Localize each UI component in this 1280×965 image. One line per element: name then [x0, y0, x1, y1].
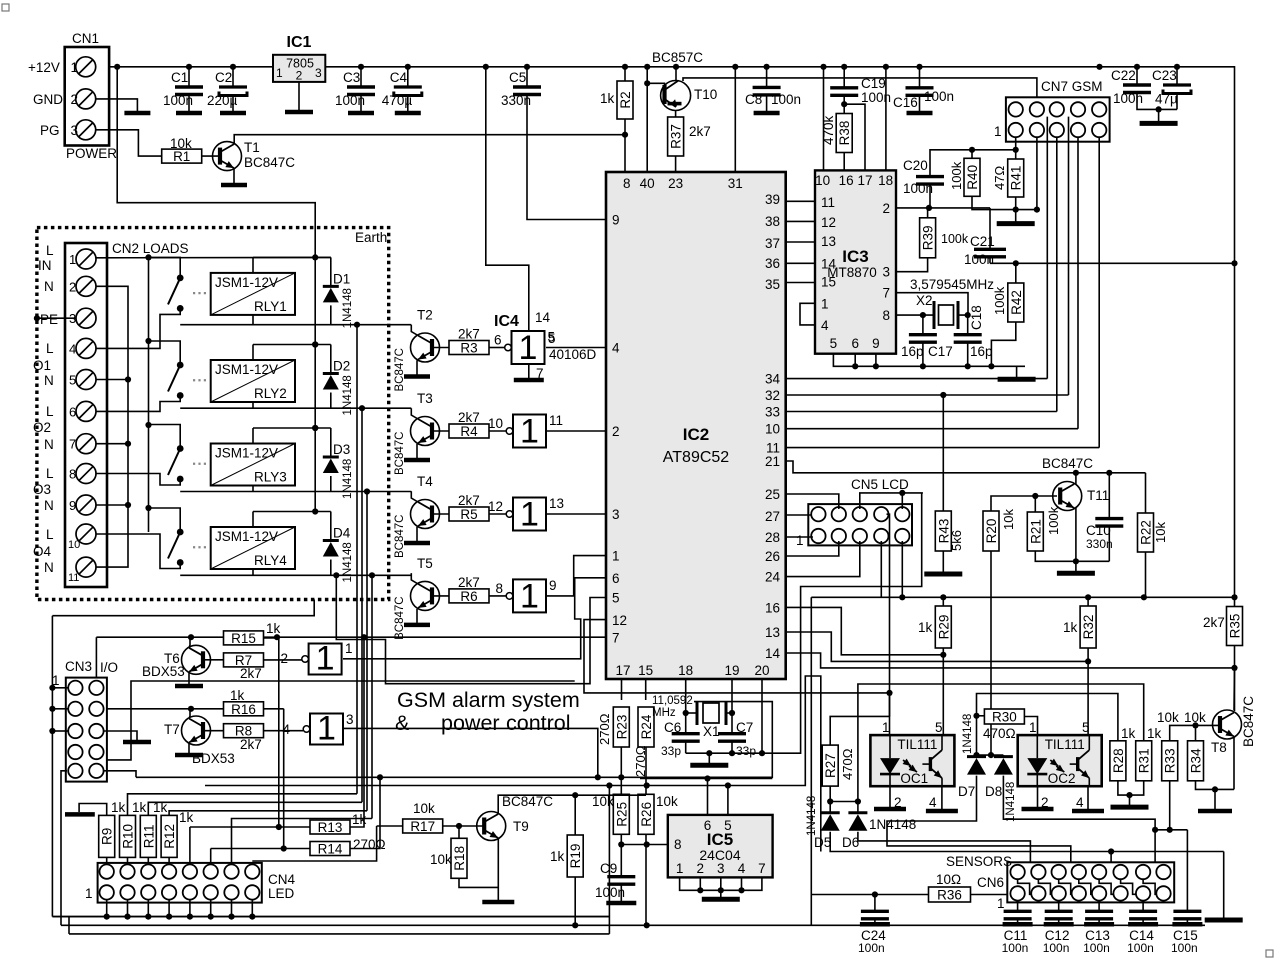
- ground T3 emitter: [404, 458, 430, 460]
- wire L-out pin to switch3 lower: [96, 474, 180, 486]
- wire T4 emitter: [416, 527, 418, 541]
- svg-text:O1: O1: [33, 358, 51, 373]
- wire R12 top riser: [169, 811, 367, 816]
- wire R33 line to CN6 and C15: [1155, 829, 1187, 831]
- svg-text:2k7: 2k7: [240, 666, 262, 681]
- wire R9 top to ground: [79, 804, 107, 816]
- svg-text:IN: IN: [38, 258, 52, 273]
- svg-text:BC847C: BC847C: [394, 515, 406, 558]
- resistor R30: [984, 709, 1024, 725]
- capacitor C23 (polarized): [1163, 85, 1191, 94]
- svg-text:1: 1: [796, 533, 804, 548]
- transistor T3: [411, 417, 440, 446]
- wire C17 lead: [922, 315, 924, 335]
- wire IC4 pin7 ground lead: [528, 364, 530, 378]
- svg-text:470Ω: 470Ω: [983, 726, 1016, 741]
- svg-text:R2: R2: [618, 91, 633, 108]
- svg-text:BC847C: BC847C: [1042, 456, 1093, 471]
- svg-text:C21: C21: [970, 234, 995, 249]
- svg-text:R4: R4: [460, 424, 478, 439]
- svg-text:1: 1: [994, 124, 1002, 139]
- svg-text:R35: R35: [1228, 614, 1243, 639]
- svg-text:8: 8: [623, 176, 631, 191]
- inverter gate IC4 gate 4: [506, 577, 546, 615]
- svg-text:33: 33: [765, 405, 780, 420]
- wire CN4 bottom pin drop: [106, 900, 108, 917]
- svg-text:4: 4: [929, 795, 937, 810]
- svg-text:39: 39: [765, 192, 780, 207]
- wire bottom rail 1: [52, 916, 609, 918]
- svg-text:2k7: 2k7: [689, 124, 711, 139]
- svg-text:5: 5: [612, 591, 620, 606]
- capacitor C18: [954, 335, 982, 343]
- wire R38 bottom to IC3 pin16: [843, 153, 845, 171]
- svg-text:6: 6: [851, 336, 859, 351]
- wire T9 collector line: [498, 795, 646, 814]
- relay RLY2 (JSM1-12V): [211, 360, 295, 402]
- wire RLY1 coil bottom lead: [252, 315, 254, 325]
- svg-text:31: 31: [728, 176, 743, 191]
- wire rail y597 left leg: [810, 597, 812, 925]
- capacitor C24: [861, 911, 889, 919]
- svg-text:6: 6: [704, 818, 712, 833]
- wire X1 ground rail: [686, 493, 922, 753]
- wire N pin9 stub: [96, 504, 128, 506]
- ground T6 emitter: [175, 684, 203, 686]
- wire IC2-IC3 link y242: [786, 241, 815, 243]
- wire R35 bottom to T8: [1234, 646, 1236, 712]
- wire T11 collector: [1075, 473, 1077, 484]
- wire R17 left drop: [252, 826, 376, 861]
- svg-text:OC1: OC1: [900, 771, 928, 786]
- svg-text:2k7: 2k7: [240, 737, 262, 752]
- svg-text:9: 9: [612, 213, 620, 228]
- svg-text:T3: T3: [417, 391, 433, 406]
- wire R40/R41 bottom rail: [972, 196, 1037, 209]
- wire IC3 pin9 drop: [875, 354, 877, 367]
- svg-text:37: 37: [765, 236, 780, 251]
- wire C24 lead: [874, 895, 876, 912]
- switch contacts RLY3: [177, 445, 184, 452]
- svg-text:2k7: 2k7: [458, 493, 480, 508]
- wire CN3 r1 riser: [95, 637, 97, 688]
- inverter gate IC4 gate 5: [302, 640, 342, 678]
- wire T7 emitter: [188, 743, 190, 753]
- svg-text:13: 13: [549, 496, 564, 511]
- capacitor C22: [1123, 85, 1151, 93]
- svg-text:O4: O4: [33, 544, 52, 559]
- ground OC2 pin2: [1022, 806, 1054, 809]
- wire CN4 pin5 riser: [189, 827, 191, 864]
- svg-text:power: power: [441, 711, 500, 735]
- svg-text:1: 1: [71, 60, 79, 75]
- relay RLY1 (JSM1-12V): [211, 273, 295, 315]
- svg-text:2k7: 2k7: [458, 575, 480, 590]
- svg-text:1k: 1k: [1147, 726, 1162, 741]
- wire CN1 pin1 to +12V rail: [95, 66, 96, 68]
- svg-text:100k: 100k: [949, 161, 964, 190]
- svg-text:11: 11: [68, 572, 79, 584]
- svg-text:R33: R33: [1163, 748, 1178, 773]
- capacitor C19: [830, 88, 858, 96]
- wire switch2 upper feed: [149, 341, 181, 365]
- svg-text:BC847C: BC847C: [394, 348, 406, 391]
- wire C9 bottom: [620, 884, 622, 899]
- wire R25 top: [620, 777, 622, 794]
- svg-text:100n: 100n: [1002, 941, 1029, 955]
- wire IC3 pin2 line: [896, 207, 990, 209]
- svg-text:1: 1: [520, 577, 539, 615]
- svg-text:IC2: IC2: [683, 425, 709, 444]
- svg-text:14: 14: [821, 256, 837, 271]
- wire T10 base from pin40 line: [647, 83, 664, 88]
- svg-text:1: 1: [69, 252, 76, 267]
- svg-text:5: 5: [935, 720, 943, 735]
- wire X1 right lead: [726, 712, 732, 714]
- wire rail3 left riser: [68, 917, 70, 934]
- svg-text:T8: T8: [1211, 740, 1227, 755]
- wire C8 bottom: [766, 95, 768, 110]
- svg-text:X1: X1: [703, 724, 720, 739]
- svg-text:470k: 470k: [821, 115, 836, 145]
- svg-text:N: N: [44, 498, 54, 513]
- wire IC2 pin26 to CN5 bot2: [786, 541, 839, 556]
- svg-text:2: 2: [71, 92, 79, 107]
- switch contacts RLY2: [177, 362, 184, 369]
- wire C20 top to CN7 pin1 net: [930, 150, 972, 177]
- svg-text:T9: T9: [513, 819, 529, 834]
- svg-text:BC847C: BC847C: [502, 794, 553, 809]
- wire CN3 r3 right to ground: [104, 731, 137, 739]
- wire IC2 pin34 line: [786, 378, 1048, 380]
- wire R21 bottom rail: [1035, 551, 1109, 561]
- wire R39 bottom to IC3 pin3: [896, 258, 928, 272]
- wire R16 right drop: [283, 709, 285, 849]
- transistor T7: [182, 716, 211, 745]
- svg-text:1k: 1k: [600, 91, 615, 106]
- wire IC3 pin6 drop: [854, 354, 856, 367]
- svg-text:10k: 10k: [656, 794, 678, 809]
- svg-text:1: 1: [821, 296, 829, 311]
- svg-text:R18: R18: [452, 846, 467, 871]
- svg-text:1: 1: [882, 720, 890, 735]
- wire IC2 pin25 to CN5 top2: [786, 494, 839, 509]
- diode D7: [967, 757, 986, 775]
- wire C3 bottom lead: [360, 95, 362, 112]
- svg-text:POWER: POWER: [66, 146, 117, 161]
- wire RLY2 bottom rail: [180, 407, 411, 409]
- wire RLY3 bottom rail: [180, 491, 411, 493]
- transistor T4: [411, 500, 440, 529]
- svg-text:13: 13: [765, 625, 780, 640]
- wire C20 bottom to pin2 node: [929, 184, 931, 208]
- svg-text:270Ω: 270Ω: [597, 713, 612, 745]
- resistor R20: [983, 511, 999, 551]
- wire T2 collector: [411, 325, 418, 336]
- svg-text:3: 3: [315, 66, 322, 80]
- node R29/OC1 pin5: [940, 652, 946, 658]
- crystal X2: [934, 301, 958, 329]
- svg-text:1: 1: [997, 896, 1005, 911]
- resistor R18: [451, 838, 467, 878]
- svg-text:10: 10: [815, 173, 830, 188]
- wire C2 bottom lead: [232, 96, 234, 112]
- svg-text:JSM1-12V: JSM1-12V: [215, 362, 278, 377]
- inverter gate IC4 gate 3: [506, 496, 546, 534]
- resistor R41: [1008, 159, 1024, 197]
- wire relay drop 3: [366, 492, 368, 811]
- resistor R22: [1138, 513, 1154, 552]
- wire CN6 link 3: [1059, 879, 1072, 894]
- wire switch1 upper feed: [149, 257, 181, 278]
- wire CN4 bottom pin drop: [127, 900, 129, 917]
- svg-text:10: 10: [488, 416, 503, 431]
- IC IC5 24C04: [668, 815, 773, 878]
- wire D1 top lead: [330, 257, 332, 286]
- svg-text:D1: D1: [333, 271, 350, 286]
- svg-text:C20: C20: [903, 158, 928, 173]
- wire RLY1 top rail: [253, 256, 331, 258]
- ground C24: [860, 919, 890, 925]
- wire R21 top: [1034, 496, 1036, 512]
- wire C19 top: [843, 67, 845, 88]
- wire R13 right riser: [350, 637, 364, 827]
- wire R20 top to T11 base: [991, 496, 1057, 511]
- svg-text:R21: R21: [1028, 519, 1043, 544]
- wire T4 base to R5: [432, 513, 449, 515]
- svg-text:L: L: [46, 404, 54, 419]
- wire IC5 bottom rail: [680, 877, 762, 890]
- svg-text:16p: 16p: [901, 344, 924, 359]
- wire R10 bottom to CN4: [127, 857, 129, 864]
- transistor T1: [213, 142, 242, 171]
- svg-text:21: 21: [765, 454, 780, 469]
- wire R17 to T9 base: [443, 825, 483, 827]
- svg-text:N: N: [44, 279, 54, 294]
- svg-text:1k: 1k: [132, 800, 147, 815]
- wire T8 emitter gnd: [1214, 789, 1216, 808]
- svg-text:L: L: [46, 466, 54, 481]
- wire C6 bottom: [685, 741, 687, 753]
- resistor R31: [1136, 741, 1152, 781]
- capacitor C8: [753, 87, 781, 95]
- svg-text:C10: C10: [1086, 523, 1111, 538]
- wire R18 top: [458, 826, 460, 838]
- CN2 pin numbers and labels: [33, 241, 189, 584]
- wire C2 top lead: [232, 67, 234, 87]
- wire R8 to gate6: [264, 730, 304, 732]
- svg-text:R3: R3: [460, 341, 477, 356]
- wire IC2 pin14 line: [786, 653, 1235, 668]
- wire R27 bottom to D5: [829, 786, 831, 813]
- wire bus A (y777): [136, 702, 772, 778]
- svg-text:2: 2: [280, 651, 288, 666]
- svg-text:2k7: 2k7: [458, 327, 480, 342]
- svg-text:10k: 10k: [413, 801, 435, 816]
- svg-text:10Ω: 10Ω: [936, 872, 961, 887]
- svg-text:BC847C: BC847C: [1241, 696, 1256, 747]
- svg-text:C17: C17: [928, 344, 953, 359]
- wire CN3 r2 left: [52, 708, 68, 710]
- diode D4: [323, 541, 339, 557]
- wire D8 bottom route: [1003, 776, 1155, 884]
- wire D7-D8 top link: [977, 754, 1004, 756]
- svg-text:D7: D7: [958, 784, 975, 799]
- wire bus B (y785): [205, 676, 821, 852]
- resistor R38: [836, 114, 852, 153]
- transistor T2: [411, 333, 440, 362]
- svg-text:MHz: MHz: [652, 707, 676, 719]
- svg-text:14: 14: [535, 310, 551, 325]
- svg-text:10k: 10k: [430, 852, 452, 867]
- wire R35 top: [1234, 597, 1236, 606]
- capacitor C13: [1085, 911, 1113, 919]
- svg-text:2: 2: [296, 69, 303, 83]
- svg-text:100n: 100n: [924, 89, 954, 104]
- svg-text:PG: PG: [40, 123, 60, 138]
- wire CN6 link 4: [1079, 879, 1093, 894]
- inverter gate IC4 gate 2: [506, 413, 546, 451]
- resistor R11: [140, 815, 156, 857]
- capacitor C7: [718, 734, 746, 742]
- ground X1 rail: [690, 753, 728, 765]
- svg-text:R19: R19: [568, 844, 583, 869]
- wire RLY4 coil bottom lead: [252, 569, 254, 575]
- wire IC2 pin19 down: [731, 679, 733, 734]
- ground T9 emitter: [482, 900, 514, 902]
- wire T8 collector: [1233, 668, 1236, 710]
- wire T3 base to R4: [432, 430, 449, 432]
- wire C18 lead: [967, 315, 969, 335]
- wire IC5 pin drop: [720, 877, 722, 890]
- svg-text:C18: C18: [969, 305, 984, 330]
- svg-text:RLY2: RLY2: [254, 386, 287, 401]
- Earth boundary (dashed box): [37, 228, 389, 600]
- wire IC5 pin drop: [741, 877, 743, 890]
- svg-text:1: 1: [276, 66, 283, 80]
- svg-text:1N4148: 1N4148: [1005, 782, 1017, 822]
- wire R3 to inverter: [489, 347, 505, 349]
- IC IC3 MT8870: [815, 170, 896, 353]
- wire CN3 r3 left: [52, 730, 68, 732]
- svg-text:14: 14: [765, 646, 781, 661]
- ground R40/R41: [997, 210, 1035, 224]
- wire N pin5 stub: [96, 379, 128, 381]
- wire IC2 pin13 line: [786, 632, 1088, 661]
- svg-text:9: 9: [549, 578, 557, 593]
- capacitor C3: [347, 87, 375, 95]
- svg-text:1N4148: 1N4148: [806, 796, 818, 836]
- svg-text:LED: LED: [268, 886, 295, 901]
- ground T4 emitter: [404, 541, 430, 543]
- wire CN7 bottom pin1 to R40/R41: [1015, 137, 1017, 159]
- svg-text:R1: R1: [173, 149, 190, 164]
- svg-text:18: 18: [678, 663, 693, 678]
- optocoupler OC1 TIL111: [870, 720, 954, 810]
- wire D2 bottom lead: [330, 393, 332, 409]
- svg-text:R6: R6: [460, 589, 477, 604]
- wire CN5 bot5 drop: [901, 541, 903, 597]
- wire CN5 top3/top5 link: [860, 493, 923, 509]
- wire C8 top: [766, 67, 768, 88]
- relay RLY4 (JSM1-12V): [211, 527, 295, 569]
- wire C21 top lead: [989, 208, 991, 249]
- ground C4: [395, 111, 421, 113]
- ground C12: [1044, 919, 1074, 925]
- wire RLY4 bottom rail: [180, 574, 411, 576]
- wire R36 right to CN6: [971, 894, 1008, 896]
- svg-text:1: 1: [317, 710, 336, 748]
- svg-text:1N4148: 1N4148: [342, 288, 354, 328]
- svg-text:CN7 GSM: CN7 GSM: [1041, 79, 1103, 94]
- ground IC1: [285, 108, 313, 112]
- svg-text:C16: C16: [893, 95, 918, 110]
- wire R24 bottom: [645, 747, 647, 786]
- svg-text:1k: 1k: [550, 849, 565, 864]
- svg-text:R41: R41: [1009, 166, 1024, 191]
- wire D8 top lead: [1002, 755, 1004, 757]
- svg-text:10k: 10k: [1001, 509, 1016, 530]
- resistor R24: [638, 707, 654, 747]
- svg-text:JSM1-12V: JSM1-12V: [215, 446, 278, 461]
- svg-text:100n: 100n: [771, 92, 801, 107]
- wire pin40 +5V: [646, 67, 648, 172]
- wire +12V rail from CN1 to IC1: [95, 66, 273, 68]
- svg-text:D3: D3: [333, 442, 350, 457]
- wire R33 bottom: [1169, 781, 1171, 830]
- wire D1 bottom lead: [330, 305, 332, 324]
- svg-text:N: N: [44, 373, 54, 388]
- wire C21 bottom to R42 line: [989, 257, 991, 264]
- svg-text:100n: 100n: [1127, 941, 1154, 955]
- svg-text:17: 17: [615, 663, 630, 678]
- svg-text:T10: T10: [694, 87, 717, 102]
- connector CN6 SENSORS: [946, 854, 1174, 911]
- svg-text:8: 8: [69, 467, 76, 482]
- svg-text:100n: 100n: [858, 941, 885, 955]
- wire IC2-IC3 link y282.5: [786, 282, 815, 284]
- wire R2 top lead: [624, 67, 626, 81]
- wire T11 emitter: [1075, 508, 1077, 561]
- wire R11 bottom to CN4: [147, 857, 149, 864]
- svg-text:1N4148: 1N4148: [342, 459, 354, 499]
- diode D1: [323, 286, 339, 302]
- svg-text:100n: 100n: [1043, 941, 1070, 955]
- wire PG pin3 to R1: [95, 130, 161, 156]
- wire IC2-IC3 link y201.3: [786, 200, 815, 202]
- wire R6 to inverter: [489, 595, 506, 597]
- svg-text:CN6: CN6: [977, 875, 1004, 890]
- wire IC2 pin33 line: [786, 411, 1057, 413]
- wire CN2 N bus: [96, 286, 128, 567]
- wire CN4 bottom rail: [52, 916, 609, 918]
- wire CN2 pin1/L bus: [96, 256, 331, 258]
- relay RLY3 (JSM1-12V): [211, 444, 295, 486]
- svg-text:C3: C3: [343, 70, 360, 85]
- wire C11 lead: [1017, 901, 1019, 912]
- svg-text:R20: R20: [984, 519, 999, 544]
- wire R12 bottom to CN4: [168, 857, 170, 864]
- resistor R33: [1162, 741, 1178, 781]
- crystal X1: [697, 701, 726, 725]
- svg-text:C23: C23: [1152, 68, 1177, 83]
- wire R23 bottom: [620, 747, 622, 777]
- wire R42 top lead: [1015, 263, 1017, 283]
- svg-text:1k: 1k: [230, 688, 245, 703]
- wire CN3 r5 left to bottom rail: [61, 771, 67, 926]
- svg-text:R17: R17: [410, 819, 435, 834]
- svg-text:R9: R9: [100, 828, 115, 845]
